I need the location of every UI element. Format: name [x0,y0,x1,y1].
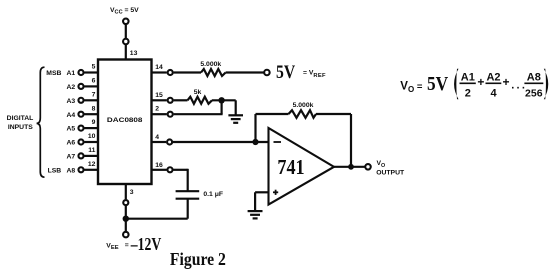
VCC supply label [110,7,139,16]
svg-text:VCC = 5V: VCC = 5V [110,7,139,16]
pin 2 label [155,106,159,113]
resistor R1 5.000k [201,69,226,76]
pin 11 label [88,147,95,154]
svg-text:5.000k: 5.000k [200,61,221,68]
wire pin 16 right [173,169,187,171]
label 0.1 uF [203,191,223,198]
equation VO = 5V (A1/2 + A2/4 + ... A8/256) [400,69,548,100]
DAC0808 label [107,117,143,124]
wire feedback top right [316,113,351,115]
input A5 [66,126,75,133]
svg-text:A6: A6 [66,140,75,147]
label MSB [46,70,61,77]
svg-text:741: 741 [277,155,304,179]
wire pin 3 down [125,184,127,199]
ground G2 [248,211,263,218]
svg-text:A4: A4 [66,112,75,119]
svg-text:MSB: MSB [46,70,61,77]
wire A4 to pin 8 [84,113,98,115]
label LSB [48,168,62,175]
label 5k R2 [194,89,202,96]
terminal VCC [123,19,129,25]
svg-text:DIGITAL: DIGITAL [7,115,34,122]
svg-text:5.000k: 5.000k [293,102,314,109]
pin 15 label [155,92,163,99]
input A7 [66,154,75,161]
input A2 [66,84,75,91]
label 5.000k R3 [293,102,314,109]
pin 6 label [92,78,96,85]
connector circle pin 4 [167,139,172,144]
svg-text:9: 9 [92,119,96,126]
label 741 [277,155,304,179]
wire pin 2 to terminal [152,113,167,115]
svg-text:10: 10 [88,133,96,140]
label 5.000k R1 [200,61,221,68]
wire R1 to VREF terminal [226,71,264,73]
terminal A8 [78,167,83,172]
svg-text:5k: 5k [194,89,202,96]
pin 14 label [155,64,163,71]
svg-text:0.1 μF: 0.1 μF [203,191,223,198]
wire to resistor R2 [174,99,188,101]
svg-text:A7: A7 [66,154,75,161]
svg-text:LSB: LSB [48,168,62,175]
svg-text:2: 2 [155,106,159,113]
svg-text:14: 14 [155,64,163,71]
terminal VREF [264,70,270,76]
wire pin 14 to terminal [152,71,167,73]
terminal A2 [78,84,83,89]
svg-text:VO: VO [377,160,386,169]
pin 9 label [92,119,96,126]
connector circle on VCC line [123,39,129,45]
svg-text:A1: A1 [461,71,475,83]
terminal A4 [78,112,83,117]
op-amp U2 741 [269,128,335,205]
wire down to capacitor C1 [187,169,189,191]
wire down to ground G1 [235,100,237,115]
terminal A5 [78,126,83,131]
input A8 [66,167,75,174]
junction dot VEE node [123,216,129,222]
svg-text:A3: A3 [66,98,75,105]
wire A8 to pin 12 [84,169,98,171]
wire A2 to pin 6 [84,85,98,87]
wire non-inverting input left [255,191,268,193]
capacitor C1 top plate [176,190,200,192]
svg-text:A8: A8 [527,71,541,83]
svg-text:7: 7 [92,91,96,98]
wire R2 to ground branch [212,99,236,101]
terminal A7 [78,153,83,158]
svg-text:A5: A5 [66,126,75,133]
label VO OUTPUT [376,160,405,176]
minus sign inverting input [274,141,282,143]
wire bottom rail to VEE node [125,218,188,220]
connector circle pin 3 [123,200,128,205]
wire junction down to pin 2 row [221,100,223,114]
svg-text:8: 8 [92,105,96,112]
label VEE = -12V [106,234,161,254]
pin 10 label [88,133,96,140]
wire A6 to pin 10 [84,141,98,143]
wire pin 4 to op-amp inverting input [173,141,269,143]
terminal A1 [78,70,83,75]
pin 8 label [92,105,96,112]
svg-text:12: 12 [88,161,96,168]
connector circle pin 14 [168,70,173,75]
fraction bar A1/2 [460,82,476,84]
wire feedback top left [256,113,289,115]
svg-text:2: 2 [465,87,471,99]
plus sign non-inverting input [273,190,278,195]
svg-text:5: 5 [92,64,96,71]
svg-text:–12V: –12V [130,234,162,254]
svg-text:DAC0808: DAC0808 [107,117,143,124]
wire pin 2 to junction [174,113,223,115]
junction dot output [348,164,354,170]
svg-text:11: 11 [88,147,95,154]
wire A1 to pin 5 [84,71,98,73]
svg-text:Figure 2: Figure 2 [170,249,226,269]
input A1 [66,70,75,77]
svg-text:4: 4 [155,134,159,141]
resistor R2 5k [188,97,213,104]
input A6 [66,140,75,147]
junction dot pins 15-2 [218,97,224,103]
wire pin 15 to terminal [152,99,167,101]
svg-text:A2: A2 [66,84,75,91]
wire A3 to pin 7 [84,99,98,101]
svg-text:4: 4 [490,87,497,99]
input A4 [66,112,75,119]
pin 3 label [130,189,134,196]
pin 13 label [130,50,138,57]
pin 12 label [88,161,96,168]
pin 16 label [155,162,163,169]
svg-text:VO =: VO = [400,81,423,95]
svg-text:3: 3 [130,189,134,196]
svg-text:5V: 5V [427,73,449,95]
svg-text:256: 256 [525,87,543,99]
wire junction to VEE terminal [125,219,127,232]
wire to resistor R1 [174,71,201,73]
pin 5 label [92,64,96,71]
terminal VO output [365,164,371,170]
DAC0808 U1 body [98,60,152,185]
svg-text:+: + [503,75,510,89]
connector circle pin 15 [168,98,173,103]
wire feedback down to output [350,114,352,167]
svg-text:INPUTS: INPUTS [8,124,33,131]
svg-text:15: 15 [155,92,163,99]
wire VCC terminal to connector [125,25,127,38]
connector circle pin 16 [167,167,172,172]
wire pin 4 to terminal [152,141,167,143]
input A3 [66,98,75,105]
wire connector to pin 13 [125,45,127,60]
capacitor C1 bottom plate [176,198,200,200]
svg-text:= VREF: = VREF [303,70,326,79]
svg-text:VEE: VEE [106,242,118,251]
svg-text:13: 13 [130,50,138,57]
fraction bar A2/4 [486,82,502,84]
svg-text:A1: A1 [66,70,75,77]
connector circle pin 2 [168,112,173,117]
label 5V = VREF [276,62,326,83]
terminal VEE [123,232,129,238]
svg-text:A8: A8 [66,167,75,174]
wire op-amp output [334,166,365,168]
terminal A3 [78,98,83,103]
svg-text:+: + [477,75,484,89]
brace digital inputs [37,67,45,177]
svg-text:16: 16 [155,162,163,169]
terminal A6 [78,139,83,144]
wire to VEE junction [125,206,127,219]
svg-text:=: = [125,242,129,249]
pin 7 label [92,91,96,98]
svg-text:. . .: . . . [511,80,525,92]
wire A5 to pin 9 [84,127,98,129]
wire feedback up [254,114,256,142]
wire capacitor down [187,199,189,219]
wire A7 to pin 11 [84,155,98,157]
svg-text:OUTPUT: OUTPUT [376,170,405,177]
svg-text:6: 6 [92,78,96,85]
wire pin 16 to terminal [152,169,167,171]
resistor R3 5.000k feedback [289,110,317,118]
pin 4 label [155,134,159,141]
label DIGITAL INPUTS [7,115,34,131]
ground G1 [228,115,243,123]
wire down to ground G2 [254,192,256,211]
junction dot feedback node [252,139,258,145]
svg-text:A2: A2 [486,71,500,83]
caption Figure 2 [170,249,226,269]
fraction bar A8/256 [524,82,543,84]
svg-text:5V: 5V [276,62,295,83]
